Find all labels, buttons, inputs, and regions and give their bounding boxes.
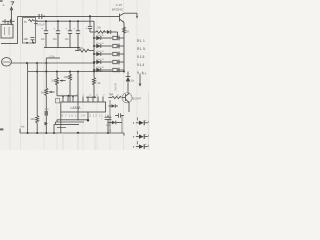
capacitor C2 bbox=[23, 37, 34, 43]
wire input line bbox=[11, 62, 94, 64]
wire ladder right vertical bbox=[123, 23, 125, 72]
node input dot bbox=[26, 62, 28, 64]
diode D2 bbox=[93, 43, 124, 48]
node bus dots bbox=[36, 71, 125, 73]
svg-text:9.1.4: 9.1.4 bbox=[137, 63, 144, 67]
value label 7.2V bbox=[106, 123, 112, 132]
svg-text:10k: 10k bbox=[79, 46, 84, 50]
oscillator box bbox=[23, 18, 36, 44]
svg-text:+: + bbox=[101, 117, 103, 121]
svg-text:R1. 1: R1. 1 bbox=[137, 39, 145, 43]
scan mark top-left corner bbox=[0, 0, 4, 6]
wire arrow feed right bbox=[139, 74, 142, 87]
svg-text:10k: 10k bbox=[30, 117, 35, 121]
node input dot4 bbox=[93, 62, 95, 64]
wire left vertical 1 bbox=[27, 63, 29, 133]
svg-text:R1. 5.: R1. 5. bbox=[137, 47, 146, 51]
wire ic left edge drop bbox=[60, 112, 62, 133]
wire stub bbox=[77, 48, 79, 51]
svg-text:BC547: BC547 bbox=[132, 96, 142, 100]
diode D8 bottom right cluster bbox=[108, 116, 122, 134]
wire ladder left vertical bbox=[93, 21, 95, 71]
wire top bus bbox=[18, 15, 119, 17]
capacitor C10 bottom right cluster bbox=[115, 113, 124, 117]
capacitor C8 bottom bbox=[45, 107, 50, 125]
node bus dot 1 bbox=[45, 20, 47, 22]
wire under-ic hook 2 bbox=[55, 122, 57, 124]
resistor R7 bottom bbox=[21, 116, 39, 134]
wire second bus bbox=[36, 20, 95, 22]
svg-text:1N4148: 1N4148 bbox=[115, 82, 118, 91]
diode D7 small left bbox=[109, 100, 119, 133]
paper background bbox=[0, 0, 150, 150]
LED D9 indicator bbox=[133, 118, 149, 126]
wire bus end tick bbox=[123, 133, 125, 136]
wire under-ic run 1 bbox=[57, 119, 88, 121]
svg-text:10k: 10k bbox=[63, 75, 68, 79]
node gnd dot2 bbox=[77, 47, 79, 49]
svg-text:10k: 10k bbox=[23, 37, 28, 41]
capacitor C6 electrolytic bbox=[73, 21, 80, 47]
diode D1 bbox=[93, 35, 124, 40]
scan mark bottom-left bbox=[0, 128, 3, 130]
LED D10 indicator bbox=[133, 131, 149, 139]
svg-text:5.4: 5.4 bbox=[143, 72, 147, 76]
node stub tops bbox=[62, 96, 74, 98]
transistor Q1 bbox=[119, 13, 125, 22]
wire pre-ic runs bbox=[57, 95, 97, 99]
node osc b bbox=[33, 42, 35, 44]
wire antenna feed with cross marks bbox=[2, 19, 15, 23]
node bus dot 2 bbox=[57, 20, 59, 22]
svg-text:10k: 10k bbox=[109, 92, 114, 96]
diode D4 bbox=[93, 59, 124, 64]
diode D5 bbox=[93, 67, 124, 72]
svg-text:1N4148: 1N4148 bbox=[96, 51, 104, 53]
svg-text:1K: 1K bbox=[126, 30, 130, 34]
svg-text:1M: 1M bbox=[41, 90, 46, 94]
node under-ic junction bbox=[87, 119, 89, 121]
node bus dot 3 bbox=[69, 20, 71, 22]
capacitor C5 electrolytic bbox=[65, 21, 73, 47]
wire left frame vertical bbox=[17, 16, 19, 43]
input jack J1 bbox=[2, 58, 12, 66]
capacitor C9 right of IC bbox=[101, 116, 111, 134]
potentiometer R9 volume 1M bbox=[41, 88, 55, 133]
resistor R2 with value bbox=[75, 46, 94, 52]
wire under-ic drop bbox=[53, 124, 55, 133]
value label column right margin bbox=[137, 39, 146, 75]
node top bus junction bbox=[89, 15, 91, 17]
node cap C1 junction bbox=[43, 16, 45, 18]
capacitor C7 near ladder top bbox=[85, 21, 92, 32]
wire collector top bbox=[124, 13, 138, 18]
wire drop x78 bbox=[77, 72, 79, 121]
diode D6 vertical right column bbox=[126, 72, 135, 94]
node bottom dots bbox=[27, 132, 109, 134]
wire under-ic hook 1 bbox=[56, 120, 58, 122]
svg-text:+: + bbox=[65, 26, 67, 30]
svg-text:0.01uF: 0.01uF bbox=[37, 23, 45, 27]
resistor R10 on ladder foot bbox=[93, 72, 102, 97]
svg-text:LA35A: LA35A bbox=[71, 106, 82, 110]
svg-text:1.2: 1.2 bbox=[106, 123, 110, 127]
svg-text:BF254C: BF254C bbox=[112, 8, 124, 12]
wire bus tie bbox=[89, 16, 91, 21]
resistor R4 emitter bbox=[123, 27, 130, 34]
svg-text:+: + bbox=[73, 26, 75, 30]
wire main lower bus bbox=[28, 71, 124, 73]
coil shield box L1 bbox=[1, 21, 13, 38]
svg-text:1N4148: 1N4148 bbox=[96, 43, 104, 45]
wire bottom ground bus bbox=[20, 132, 124, 134]
svg-text:1N4148: 1N4148 bbox=[96, 59, 104, 61]
svg-text:1k: 1k bbox=[131, 79, 135, 83]
svg-text:10k: 10k bbox=[51, 78, 56, 82]
svg-text:10u: 10u bbox=[65, 37, 70, 41]
diode D3 bbox=[93, 51, 124, 56]
resistor R1 bbox=[24, 20, 38, 25]
wire left vertical 2 bbox=[36, 63, 38, 116]
wire bus left tick bbox=[19, 129, 21, 133]
scan streak segments bbox=[63, 92, 148, 150]
resistor R3 row bbox=[90, 26, 105, 34]
svg-text:7k: 7k bbox=[24, 20, 28, 24]
svg-text:10u: 10u bbox=[53, 37, 58, 41]
svg-text:+: + bbox=[85, 26, 87, 30]
wire under-ic run 2 bbox=[56, 121, 85, 123]
wire under-ic pin drop bbox=[87, 112, 89, 121]
svg-text:2.1: 2.1 bbox=[108, 128, 112, 132]
svg-text:1N4148: 1N4148 bbox=[96, 67, 104, 69]
node input dot2 bbox=[36, 62, 38, 64]
op-amp U1 IC box bbox=[61, 102, 106, 112]
LED D11 indicator bbox=[133, 141, 149, 149]
svg-text:100k: 100k bbox=[49, 54, 55, 58]
node input dot3 bbox=[45, 62, 47, 64]
resistor R6 bbox=[63, 72, 71, 102]
diode D0 row bbox=[104, 30, 117, 38]
svg-text:10k: 10k bbox=[97, 26, 102, 30]
wire ground run below shield bbox=[1, 43, 18, 45]
value label Q1 part bbox=[112, 3, 124, 12]
svg-text:F-07: F-07 bbox=[116, 3, 123, 7]
svg-text:10u: 10u bbox=[41, 37, 46, 41]
resistor R8 base bbox=[109, 92, 122, 99]
svg-text:9.1.5: 9.1.5 bbox=[137, 55, 144, 59]
potentiometer R5 bbox=[51, 72, 65, 96]
antenna A1 bbox=[10, 2, 14, 25]
capacitor C4 electrolytic bbox=[53, 21, 61, 47]
wire mid ground bus bbox=[44, 47, 80, 49]
svg-text:lnk: lnk bbox=[21, 125, 25, 129]
svg-text:+: + bbox=[41, 26, 43, 30]
pin-5 marker box bbox=[56, 99, 60, 103]
pin stubs top bbox=[63, 97, 103, 103]
capacitor C1 series in top bus bbox=[39, 14, 43, 19]
wire under-ic run 4 bbox=[57, 126, 66, 128]
transistor Q2 bbox=[122, 93, 142, 112]
svg-text:+: + bbox=[53, 26, 55, 30]
wire volume feed bbox=[46, 54, 60, 88]
node osc a bbox=[26, 42, 28, 44]
capacitor C3 electrolytic bbox=[41, 21, 49, 47]
svg-text:10u: 10u bbox=[45, 107, 50, 111]
wire under-ic run 3 bbox=[54, 123, 79, 125]
svg-text:1N4148: 1N4148 bbox=[96, 35, 104, 37]
node bus dot 4 bbox=[77, 20, 79, 22]
